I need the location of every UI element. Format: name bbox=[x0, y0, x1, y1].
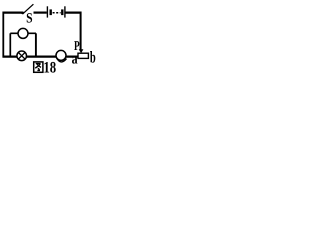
wire switch to battery bbox=[34, 12, 47, 14]
rheostat body bbox=[78, 53, 88, 58]
svg-text:a: a bbox=[72, 51, 78, 67]
meter circle upper (plain) bbox=[18, 28, 28, 38]
svg-text:S: S bbox=[26, 11, 33, 27]
battery cell2 long plate bbox=[64, 6, 66, 17]
wire parallel right rail bbox=[35, 33, 37, 56]
lamp L (circle with X) bbox=[17, 51, 27, 61]
battery cell2 short thick plate bbox=[61, 9, 63, 15]
stray arc mark under circle bbox=[56, 58, 66, 62]
battery cell1 short thick plate bbox=[50, 9, 52, 15]
node switch left contact bbox=[21, 12, 24, 15]
caption glyph tu box bbox=[34, 62, 43, 72]
svg-text:18: 18 bbox=[43, 60, 56, 75]
wire right vertical down to slider bbox=[80, 12, 82, 51]
switch S blade bbox=[24, 4, 34, 13]
wire top-left horizontal bbox=[3, 12, 23, 14]
wire left vertical bbox=[2, 12, 4, 58]
wire parallel top branch bbox=[10, 32, 36, 34]
slider arrowhead bbox=[79, 49, 84, 53]
battery dashed middle (omitted cells) bbox=[53, 12, 61, 14]
wire battery to top-right corner bbox=[65, 12, 81, 14]
svg-text:b: b bbox=[90, 48, 96, 67]
battery cell1 long plate bbox=[46, 6, 48, 17]
wire parallel left rail bbox=[9, 33, 11, 56]
wire bottom horizontal bbox=[3, 55, 79, 57]
meter circle lower right (plain) bbox=[56, 50, 66, 60]
caption glyph tu inner strokes bbox=[35, 64, 41, 71]
